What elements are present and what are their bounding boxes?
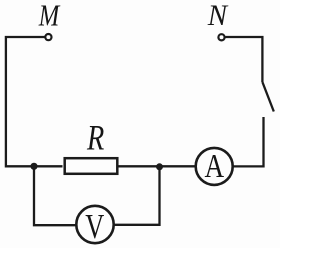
svg-text:V: V: [85, 207, 104, 246]
svg-text:A: A: [205, 148, 225, 185]
svg-text:R: R: [86, 118, 104, 158]
svg-text:M: M: [38, 0, 61, 33]
svg-text:N: N: [207, 0, 229, 32]
